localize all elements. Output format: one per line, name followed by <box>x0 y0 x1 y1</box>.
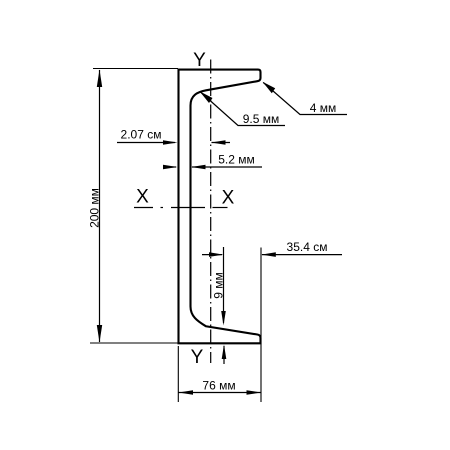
svg-text:9.5 мм: 9.5 мм <box>243 112 280 126</box>
svg-text:35.4 см: 35.4 см <box>287 240 328 254</box>
svg-text:9 мм: 9 мм <box>212 272 226 299</box>
svg-text:76 мм: 76 мм <box>202 379 235 393</box>
svg-text:200 мм: 200 мм <box>88 188 102 228</box>
svg-text:X: X <box>222 188 235 209</box>
svg-text:Y: Y <box>193 50 206 71</box>
svg-text:2.07 см: 2.07 см <box>121 128 162 142</box>
svg-text:4 мм: 4 мм <box>310 101 337 115</box>
svg-text:X: X <box>136 187 149 208</box>
svg-text:Y: Y <box>191 347 204 368</box>
svg-text:5.2 мм: 5.2 мм <box>218 153 255 167</box>
